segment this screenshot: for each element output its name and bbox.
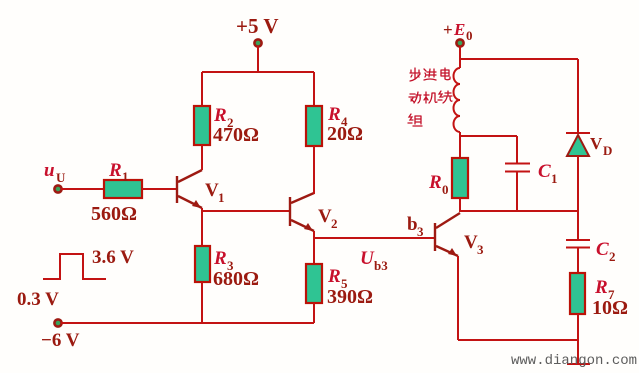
V1 label [205,180,225,205]
wire R4 top branch [313,72,315,107]
svg-text:560Ω: 560Ω [91,203,137,225]
VD label [590,134,612,158]
svg-text:E: E [453,20,465,39]
svg-text:V: V [464,232,478,253]
resistor R3 [195,246,210,282]
input terminal dot [54,185,61,192]
wire R0 bottom [459,198,461,212]
capacitor C2 [566,240,590,248]
R1 label [108,160,129,184]
stepper motor winding caption line3 [408,114,422,126]
transistor V3 [435,213,460,256]
svg-text:U: U [360,248,375,269]
wire +E0 stub [459,46,461,68]
3.6 V label [92,247,134,268]
wire emitter bottom run [458,339,578,341]
svg-text:C: C [596,239,609,260]
svg-text:R: R [213,248,227,269]
svg-text:680Ω: 680Ω [213,268,259,290]
resistor R1 [104,180,142,198]
C2 label [596,239,616,264]
wire R3 bottom [201,282,203,323]
resistor R4 [306,106,322,146]
+5 V supply label [236,14,279,38]
motor winding inductor L [454,68,460,132]
resistor R5 [306,264,322,303]
wire right rail middle [577,156,579,240]
wire right rail top [577,59,579,133]
svg-text:20Ω: 20Ω [327,123,363,145]
svg-text:b3: b3 [374,258,388,273]
R7 label [594,277,615,302]
R0 label [428,172,449,197]
svg-text:V: V [318,206,332,227]
resistor R2 [194,106,210,145]
wire V1 emitter node down to R3 [201,208,203,247]
svg-text:+: + [443,20,453,39]
wire R4 to V2 collector [313,146,315,194]
wire C1 bottom lead [516,172,518,212]
+E0 supply label [443,20,473,43]
Ub3 label [360,248,388,273]
svg-text:10Ω: 10Ω [592,297,628,319]
svg-text:R: R [594,277,608,298]
svg-text:C: C [538,161,551,182]
wire R1 to V1 base [142,188,176,190]
svg-text:2: 2 [609,249,616,264]
stepper motor winding caption line2 [409,91,452,103]
svg-text:V: V [205,180,219,201]
R4 label [327,104,348,129]
input uU label [44,160,66,185]
svg-text:1: 1 [218,190,225,205]
wire collector node rail [460,210,578,212]
-6 V label [41,330,80,351]
wire V2 emitter down to R5 [313,231,315,265]
wire V3 emitter down [457,256,459,340]
stepper motor winding caption line1 [410,68,450,81]
svg-text:D: D [603,143,612,158]
resistor R0 [452,158,468,198]
resistor R7 [570,273,585,314]
capacitor C1 [505,164,530,172]
R3 label [213,248,234,273]
diode VD [566,133,590,156]
R5 label [327,266,348,291]
wire R7 bottom to edge [577,314,579,364]
wire bottom foot [567,363,590,365]
svg-text:u: u [44,160,55,181]
wire input to R1 [61,188,104,190]
svg-text:R: R [327,266,341,287]
wire node to C1 top [460,135,517,137]
svg-text:3.6 V: 3.6 V [92,247,134,268]
wire V2 emitter to V3 base [314,237,434,239]
pulse waveform [43,254,106,279]
R3 value 680ohm [213,268,259,290]
svg-text:−6 V: −6 V [41,330,80,351]
R7 value 10ohm [592,297,628,319]
svg-text:www.diangon.com: www.diangon.com [511,353,637,369]
svg-text:470Ω: 470Ω [213,124,259,146]
R1 value 560ohm [91,203,137,225]
wire R5 bottom [313,303,315,323]
svg-text:0: 0 [466,28,473,43]
svg-text:2: 2 [331,216,338,231]
svg-text:3: 3 [417,224,424,239]
svg-text:U: U [56,170,66,185]
-6V terminal dot [54,319,61,326]
svg-text:390Ω: 390Ω [327,286,373,308]
svg-text:R: R [327,104,341,125]
svg-text:1: 1 [122,169,129,184]
wire top-right rail [460,58,578,60]
R5 value 390ohm [327,286,373,308]
b3 label [407,214,424,239]
svg-text:0.3 V: 0.3 V [17,289,59,310]
transistor V2 [290,193,314,231]
wire C1 top lead [516,136,518,163]
wire +5V stub [257,46,259,72]
svg-text:+5 V: +5 V [236,14,279,38]
watermark www.diangon.com [511,353,637,369]
wire R2 to V1 collector [201,145,203,170]
svg-text:R: R [428,172,442,193]
0.3 V label [17,289,59,310]
svg-text:b: b [407,214,418,235]
wire top rail [202,71,314,73]
+5V terminal dot [254,39,261,46]
svg-text:V: V [590,134,603,153]
svg-text:3: 3 [477,242,484,257]
wire winding bottom node [459,132,461,158]
transistor V1 [177,170,202,208]
wire V1 emitter to V2 base [202,210,289,212]
R2 label [213,105,234,130]
wire -6V rail [61,322,314,324]
+E0 terminal dot [456,39,463,46]
V2 label [318,206,338,231]
wire C2 to R7 [577,247,579,274]
wire R2 top branch [201,72,203,107]
V3 label [464,232,484,257]
svg-text:R: R [213,105,227,126]
R4 value 20ohm [327,123,363,145]
svg-text:0: 0 [442,182,449,197]
svg-text:R: R [108,160,122,181]
svg-text:1: 1 [551,171,558,186]
R2 value 470ohm [213,124,259,146]
C1 label [538,161,558,186]
